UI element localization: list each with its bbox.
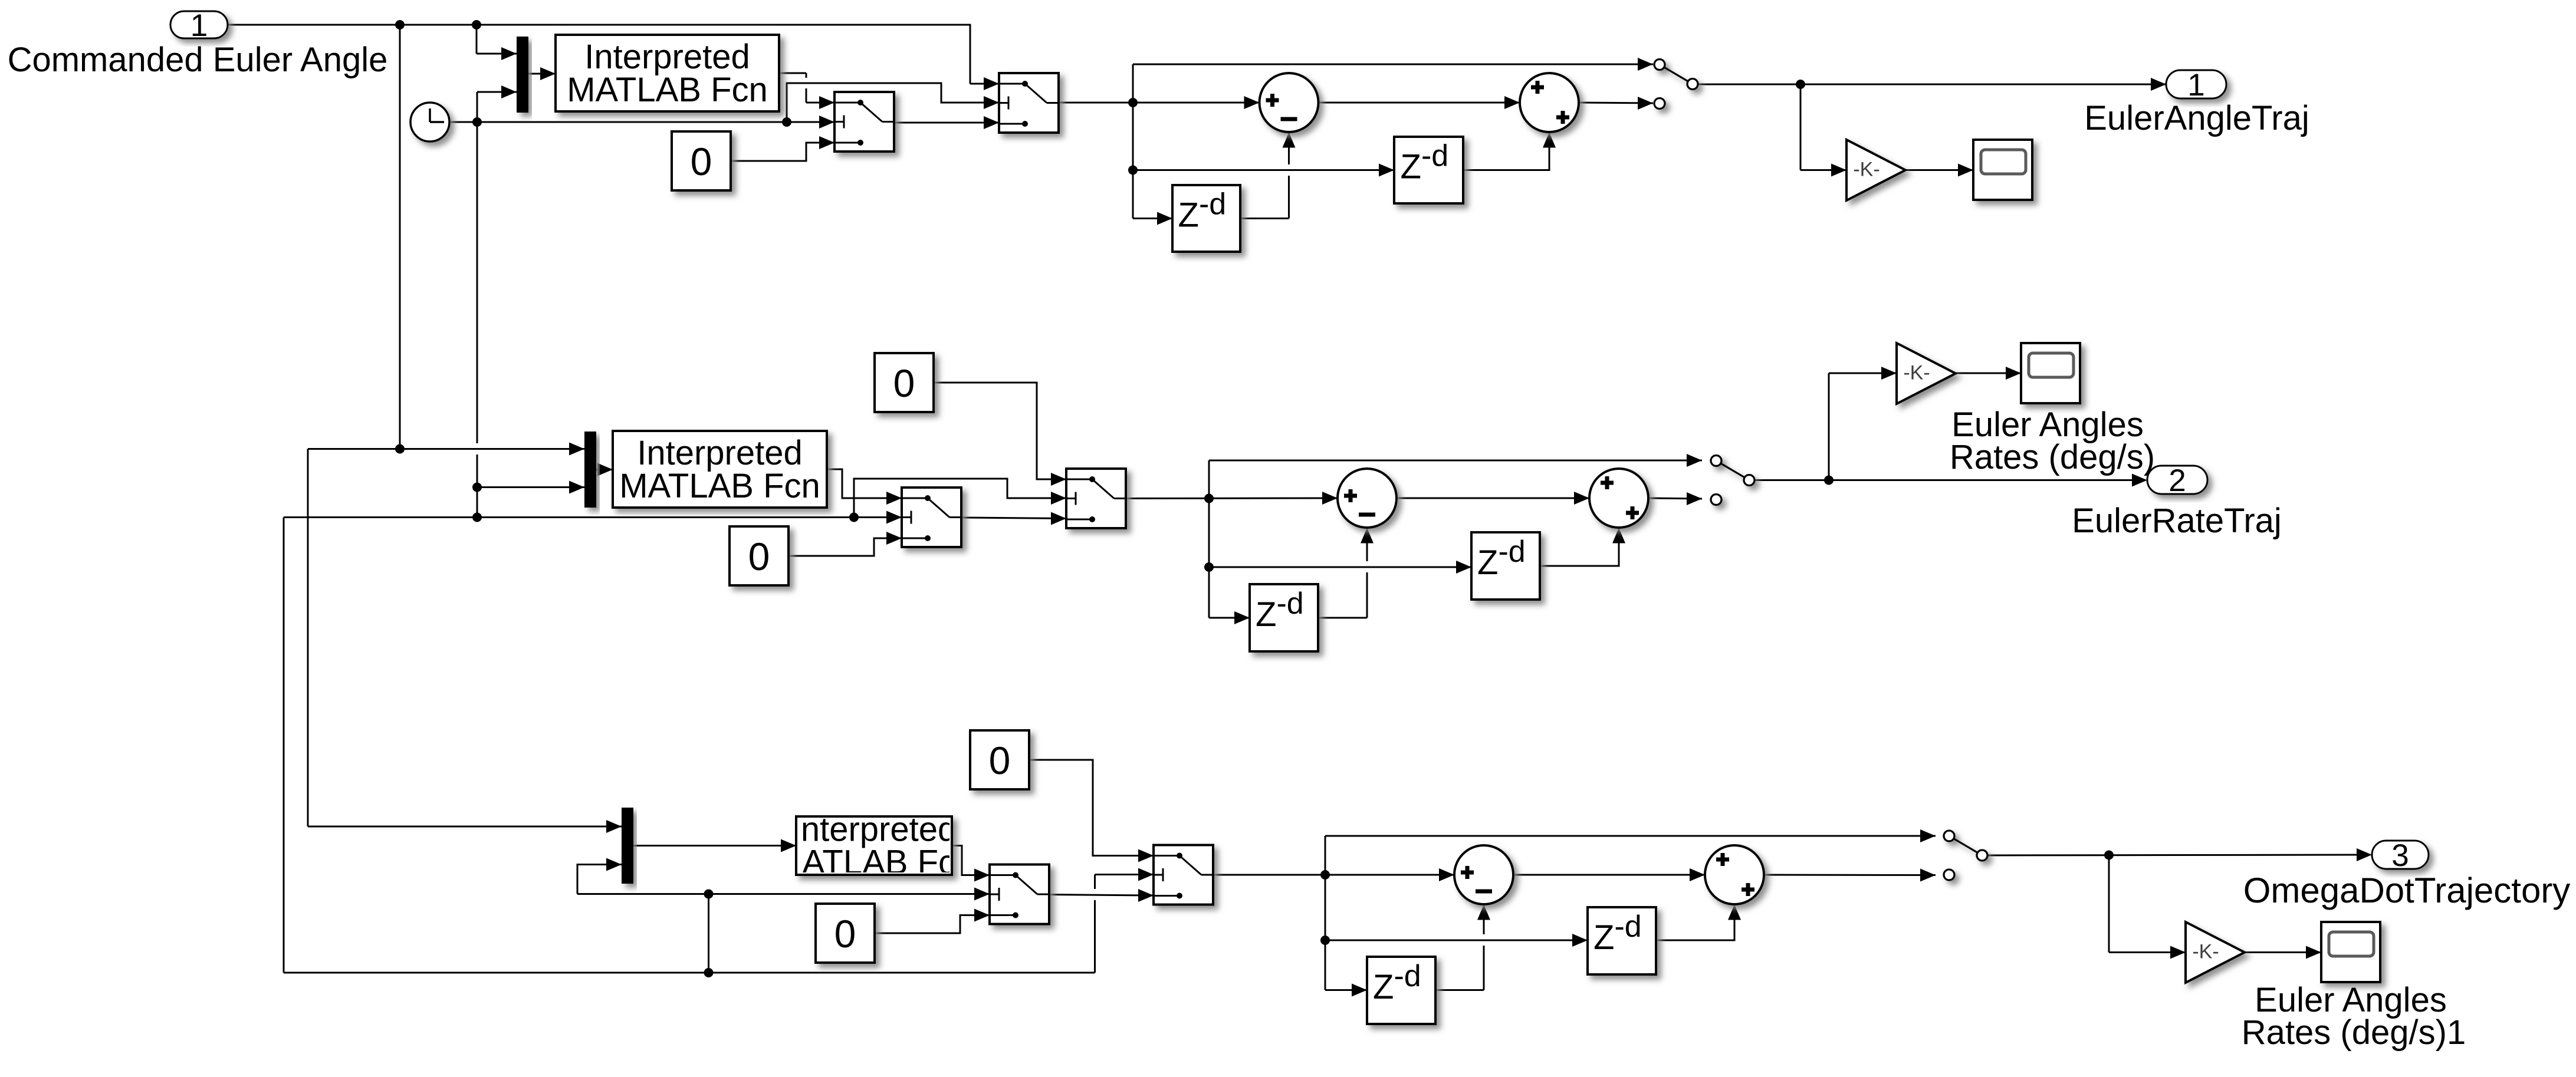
svg-text:OmegaDotTrajectory: OmegaDotTrajectory	[2243, 871, 2571, 910]
svg-text:Commanded Euler Angle: Commanded Euler Angle	[8, 41, 388, 79]
svg-text:1: 1	[190, 8, 208, 43]
svg-text:1: 1	[2187, 68, 2204, 103]
svg-text:-K-: -K-	[1853, 159, 1880, 181]
svg-text:0: 0	[834, 912, 856, 956]
svg-text:-K-: -K-	[2192, 941, 2219, 963]
svg-text:MATLAB Fcn: MATLAB Fcn	[619, 467, 820, 505]
svg-text:EulerAngleTraj: EulerAngleTraj	[2084, 99, 2309, 137]
svg-text:0: 0	[691, 140, 712, 183]
svg-text:3: 3	[2391, 838, 2409, 873]
svg-text:Rates (deg/s)1: Rates (deg/s)1	[2242, 1013, 2466, 1052]
svg-text:2: 2	[2168, 463, 2186, 498]
svg-text:EulerRateTraj: EulerRateTraj	[2072, 502, 2282, 540]
svg-text:0: 0	[893, 361, 915, 405]
svg-text:0: 0	[989, 739, 1011, 782]
svg-text:Rates (deg/s): Rates (deg/s)	[1950, 438, 2155, 476]
svg-text:0: 0	[748, 535, 770, 578]
svg-text:-K-: -K-	[1903, 362, 1930, 384]
svg-text:MATLAB Fcn: MATLAB Fcn	[567, 71, 768, 109]
